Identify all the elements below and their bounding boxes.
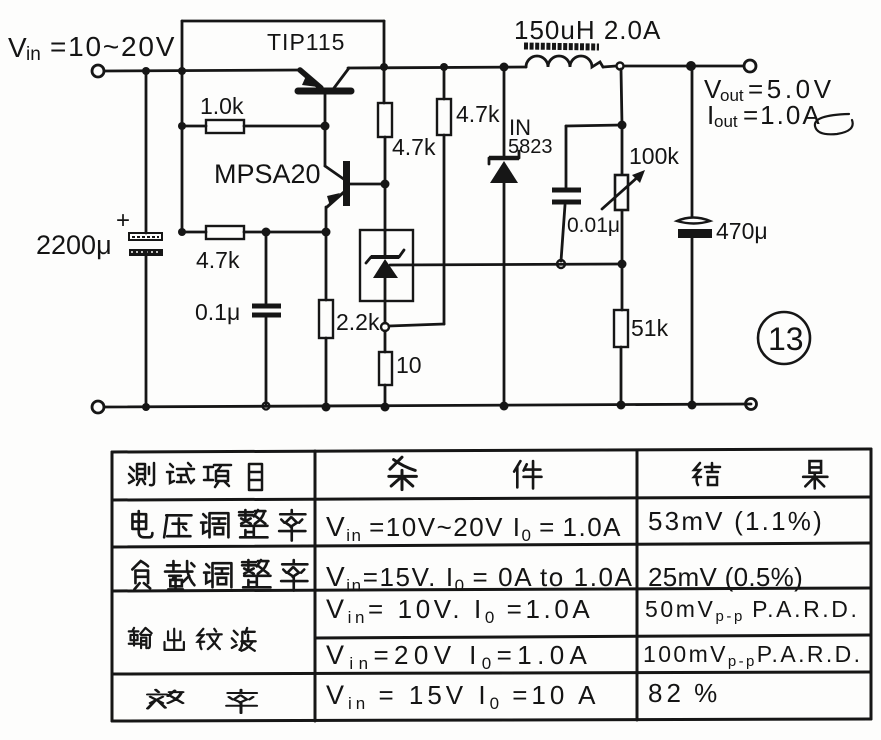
diode D1 IN5823 (489, 67, 519, 406)
row1: 电压调整率 (132, 511, 152, 537)
svg-text:10: 10 (396, 352, 422, 378)
resistor R3 2.2k (319, 232, 333, 407)
capacitor C4 470u (677, 66, 712, 405)
node: Q2 base / R4.7k#1 (381, 180, 390, 189)
node: C0.1 top (262, 228, 271, 237)
node: rail/R4.7k#1 (380, 63, 388, 71)
node: gnd C2200 (142, 403, 150, 411)
svg-text:+: + (116, 207, 130, 234)
label Vout Iout (704, 74, 853, 134)
wire: inductor to output (603, 66, 616, 67)
node B: junction input rail / box left (178, 67, 186, 75)
node: rail/R4.7k#2 (440, 63, 448, 71)
terminal ground right (746, 399, 757, 410)
node: R1.0k left (178, 122, 186, 130)
svg-text:TIP115: TIP115 (267, 29, 345, 55)
row2: 负载调整率 (132, 561, 150, 589)
capacitor C1 2200u electrolytic (129, 71, 163, 407)
node: switch node small ring (617, 63, 624, 70)
resistor R5 10 (379, 331, 392, 407)
TABLE GRID (112, 449, 871, 721)
terminal input (92, 65, 104, 77)
label D1 (508, 115, 553, 158)
svg-text:50mVp-p P.A.R.D.: 50mVp-p P.A.R.D. (645, 596, 859, 625)
svg-text:25mV (0.5%): 25mV (0.5%) (648, 562, 803, 592)
figure number 13 circled (758, 312, 810, 364)
node: R1/Q1 base (321, 122, 330, 131)
CJK text hand-drawn (129, 457, 828, 713)
svg-text:4.7k: 4.7k (392, 134, 436, 160)
wire: left bias vertical (181, 71, 184, 232)
node: gnd R2.2k (322, 403, 331, 412)
wire: top-left input rail (104, 70, 300, 71)
svg-text:5823: 5823 (508, 136, 553, 158)
resistor R2 4.7k horizontal (182, 226, 326, 239)
wire: feedback tap (390, 264, 621, 265)
svg-text:V: V (8, 32, 27, 63)
svg-text:0.1μ: 0.1μ (195, 299, 240, 325)
node: zener bottom junction ring (381, 323, 389, 331)
transistor Q1 TIP115 box (182, 21, 384, 71)
svg-text:1.0k: 1.0k (200, 93, 244, 119)
svg-text:in: in (26, 44, 41, 65)
svg-text:Vin=20V I0=1.0A: Vin=20V I0=1.0A (326, 640, 592, 673)
node: Q2 emitter / R4.7kh (322, 228, 331, 237)
svg-text:2.2k: 2.2k (336, 309, 380, 335)
svg-text:Vin=15V. I0 = 0A to 1.0A: Vin=15V. I0 = 0A to 1.0A (326, 561, 634, 595)
capacitor C2 0.1u (252, 232, 281, 404)
header: 条 件 (389, 457, 417, 489)
node: gnd R51k (617, 401, 626, 410)
node: output rail / C470 (686, 61, 696, 71)
node: C3 bottom ring (557, 260, 565, 268)
node: L out / feedback top (618, 121, 627, 130)
resistor R6 4.7k vertical #2 (389, 67, 451, 326)
header: 结 果 (694, 463, 720, 485)
terminal ground left (92, 401, 104, 413)
zener D2 inside box (366, 231, 404, 323)
node: gnd R10 (381, 403, 390, 412)
node: rail/D1 (500, 63, 509, 72)
resistor R8 51k (614, 264, 628, 405)
transistor Q2 MPSA20 (325, 126, 385, 232)
svg-text:Vin =10V~20V I0 = 1.0A: Vin =10V~20V I0 = 1.0A (326, 511, 622, 545)
svg-text:13: 13 (768, 321, 804, 357)
svg-text:100mVp-pP.A.R.D.: 100mVp-pP.A.R.D. (643, 641, 862, 670)
row3: 输出纹波 (129, 628, 152, 648)
node: R4.7kh left (178, 228, 186, 236)
inductor L1 150uH (524, 46, 603, 67)
svg-text:51k: 51k (631, 315, 669, 341)
label C1 (36, 207, 130, 260)
svg-text:470μ: 470μ (716, 218, 768, 244)
resistor R4 4.7k vertical #1 (378, 67, 392, 184)
svg-text:82 %: 82 % (648, 678, 721, 708)
svg-text:MPSA20: MPSA20 (214, 159, 321, 189)
svg-text:out: out (720, 86, 744, 105)
node A: junction input rail / C2200 (142, 67, 150, 75)
svg-text:0.01μ: 0.01μ (567, 214, 620, 237)
svg-text:100k: 100k (629, 143, 679, 169)
node: gnd D1 (500, 402, 509, 411)
row4: 效 率 (148, 690, 183, 709)
wire: ground rail (104, 404, 751, 407)
reference U2 box (360, 230, 413, 301)
svg-text:2200μ: 2200μ (36, 230, 112, 260)
resistor R1 1.0k (182, 120, 325, 133)
capacitor C3 0.01u (552, 125, 622, 261)
transistor Q1 TIP115 symbol (298, 68, 351, 126)
svg-text:4.7k: 4.7k (196, 247, 240, 273)
node: divider mid (618, 260, 627, 269)
svg-text:Vin= 10V. I0 =1.0A: Vin= 10V. I0 =1.0A (326, 594, 593, 627)
potentiometer R7 100k (602, 69, 645, 264)
svg-text:=1.0A: =1.0A (743, 100, 822, 130)
node: gnd C0.1 ring (263, 403, 270, 410)
header: 测试项目 (129, 463, 154, 485)
svg-text:=10~20V: =10~20V (50, 31, 176, 62)
svg-text:53mV (1.1%): 53mV (1.1%) (648, 506, 824, 536)
svg-text:150uH 2.0A: 150uH 2.0A (514, 15, 661, 45)
svg-text:out: out (714, 112, 738, 131)
node: gnd C470 (688, 401, 697, 410)
terminal output (744, 60, 756, 72)
wire: Q2 base node down to U2 box (384, 184, 387, 231)
label Vin (8, 31, 176, 65)
svg-text:4.7k: 4.7k (456, 101, 500, 127)
TABLE LATIN TEXT (326, 506, 862, 713)
svg-text:Vin = 15V I0 =10 A: Vin = 15V I0 =10 A (326, 680, 600, 713)
wire: collector rail to inductor (348, 67, 526, 68)
